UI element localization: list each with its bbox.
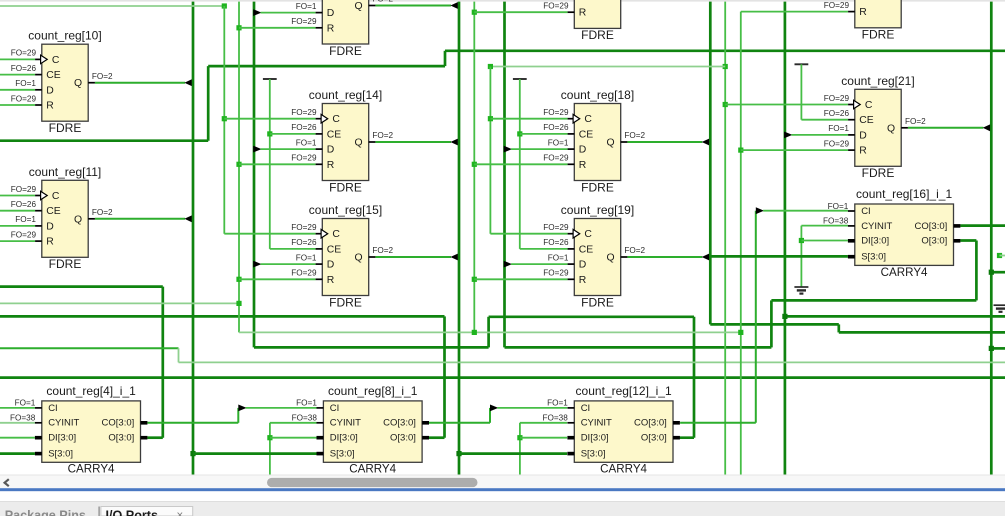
svg-text:C: C xyxy=(865,100,873,111)
junction CYINIT net to DI of count_reg[16]_i_1 xyxy=(799,238,804,243)
svg-text:FDRE: FDRE xyxy=(49,121,82,135)
svg-text:Q: Q xyxy=(74,78,82,89)
wire net O[3:0] of count_reg[12]_i_1 vertical trunk V6 xyxy=(253,2,256,348)
svg-text:FO=29: FO=29 xyxy=(543,269,569,278)
wire O[12] net vertical riser x=488 xyxy=(487,317,490,348)
junction reset to R of top flip-flop (x=574 column) xyxy=(472,10,477,15)
svg-text:FDRE: FDRE xyxy=(329,295,362,309)
svg-text:FO=1: FO=1 xyxy=(828,202,849,211)
flip-flop count_reg[13] (FDRE, cut at top edge) xyxy=(291,0,375,58)
svg-text:S[3:0]: S[3:0] xyxy=(581,449,606,460)
arrowhead D input branch for count_reg[18] xyxy=(504,146,512,153)
svg-text:CARRY4: CARRY4 xyxy=(881,266,928,279)
wire Q output of count_reg[14] xyxy=(375,141,451,143)
wire O[16] net vertical riser x=771 xyxy=(770,300,773,347)
arrowhead Q of count_reg[21] at trunk xyxy=(983,124,990,131)
junction clock branch at top of trunk V27 xyxy=(488,64,493,69)
node CE net stub terminator (T-bar) right xyxy=(795,63,809,65)
svg-text:FDRE: FDRE xyxy=(581,295,614,309)
svg-text:R: R xyxy=(327,275,335,286)
node CE net stub terminator (T-bar) middle xyxy=(513,78,527,80)
wire CO[3:0] of count_reg[12]_i_1 xyxy=(680,422,756,424)
svg-text:FO=1: FO=1 xyxy=(296,138,317,147)
wire CE to CE pin of count_reg[19] xyxy=(520,248,568,250)
svg-text:FO=26: FO=26 xyxy=(543,238,569,247)
svg-text:FO=1: FO=1 xyxy=(296,399,317,408)
svg-text:C: C xyxy=(584,114,592,125)
svg-text:R: R xyxy=(859,7,867,18)
arrowhead carry into CI of count_reg[12]_i_1 xyxy=(490,405,498,412)
arrowhead carry into CI of count_reg[8]_i_1 xyxy=(238,405,246,412)
svg-text:CARRY4: CARRY4 xyxy=(349,463,396,476)
junction CYINIT net to DI of count_reg[8]_i_1 xyxy=(267,435,272,440)
arrowhead Q of count_reg[18] at trunk xyxy=(702,139,709,146)
tab separator xyxy=(98,507,100,516)
wire branch from trunk V5 to right edge y=316 xyxy=(785,315,1005,318)
wire CE to CE pin of count_reg[18] xyxy=(520,133,568,135)
wire V3 net step down x=839 xyxy=(837,324,840,332)
wire CE to CE pin of count_reg[21] xyxy=(801,119,848,121)
svg-text:CE: CE xyxy=(46,206,61,217)
wire D input of count_reg[21] xyxy=(791,134,848,136)
wire net Q-bus trunk V1 (collects Q[10],Q[11], feeds S of count_reg[8]_i_1) xyxy=(192,2,195,475)
junction CYINIT net to DI of count_reg[12]_i_1 xyxy=(517,435,522,440)
wire branch from trunk V4 to right edge y=348 xyxy=(991,347,1005,350)
svg-text:FO=1: FO=1 xyxy=(296,253,317,262)
svg-text:CARRY4: CARRY4 xyxy=(600,463,647,476)
svg-text:CARRY4: CARRY4 xyxy=(68,463,115,476)
svg-text:D: D xyxy=(327,145,335,156)
wire Q output of count_reg[11] xyxy=(95,218,185,220)
flip-flop count_reg[11] (FDRE) xyxy=(11,165,102,271)
svg-text:count_reg[11]: count_reg[11] xyxy=(29,165,102,179)
wire stepped net vertical x=208 xyxy=(207,66,210,141)
svg-text:FO=2: FO=2 xyxy=(92,72,113,81)
wire O[16] net horizontal y=347 xyxy=(505,346,772,349)
svg-text:Q: Q xyxy=(355,1,363,12)
svg-text:S[3:0]: S[3:0] xyxy=(330,449,355,460)
wire S[3:0] input of count_reg[4]_i_1 from left edge xyxy=(0,452,35,455)
svg-text:count_reg[4]_i_1: count_reg[4]_i_1 xyxy=(46,384,136,398)
svg-text:FO=29: FO=29 xyxy=(291,154,317,163)
wire full-width dark net y=378 xyxy=(0,376,1005,379)
wire CYINIT input of count_reg[4]_i_1 from left edge xyxy=(0,422,35,424)
ground symbol partial at right edge xyxy=(994,305,1005,312)
wire clock pale branch y=66 xyxy=(490,66,725,68)
active tab background I/O Ports xyxy=(101,507,193,516)
svg-text:CE: CE xyxy=(327,129,342,140)
svg-text:CO[3:0]: CO[3:0] xyxy=(383,418,416,429)
wire reset to R pin of count_reg[14] xyxy=(239,163,316,165)
flip-flop count_reg[21] (FDRE) xyxy=(824,74,915,180)
svg-text:FO=2: FO=2 xyxy=(372,131,393,140)
svg-text:DI[3:0]: DI[3:0] xyxy=(330,433,358,444)
wire CE input of count_reg[11] from left edge xyxy=(0,210,35,212)
wire stepped net horizontal y=51 to right edge xyxy=(445,49,1005,52)
junction reset to R of count_reg[14] xyxy=(236,162,241,167)
wire pale net horizontal y=362 to right edge xyxy=(179,361,1005,363)
wire CO[12] riser V8 x=756 xyxy=(755,211,757,423)
wire stepped net vertical x=445 xyxy=(444,51,447,66)
blue splitter bar xyxy=(0,488,1005,491)
wire clock trunk V9 x=224 xyxy=(223,6,225,234)
wire O[4] net run to O[3:0] output xyxy=(147,436,162,439)
svg-text:FO=2: FO=2 xyxy=(372,246,393,255)
svg-text:FO=1: FO=1 xyxy=(15,79,36,88)
svg-text:CO[3:0]: CO[3:0] xyxy=(634,418,667,429)
wire CYINIT net vertical of count_reg[8]_i_1 xyxy=(269,423,271,475)
wire R input of count_reg[11] from left edge xyxy=(0,240,35,242)
wire DI[3:0] input of count_reg[4]_i_1 from left edge xyxy=(0,437,35,439)
arrowhead Q of count_reg[15] at trunk xyxy=(450,254,457,261)
wire net trunk V5 (O bus feeding D of count_reg[21]) xyxy=(784,2,787,475)
junction on trunk V5 at y=316 xyxy=(782,314,787,319)
svg-text:count_reg[8]_i_1: count_reg[8]_i_1 xyxy=(328,384,418,398)
svg-text:O[3:0]: O[3:0] xyxy=(641,433,667,444)
svg-text:FO=29: FO=29 xyxy=(543,2,569,11)
wire CI input of count_reg[16]_i_1 xyxy=(763,210,848,212)
wire reset trunk V23 x=474 xyxy=(473,2,475,333)
wire CO[3:0] of count_reg[4]_i_1 xyxy=(147,422,238,424)
svg-text:CE: CE xyxy=(579,129,594,140)
svg-text:FO=38: FO=38 xyxy=(292,414,318,423)
svg-text:FO=29: FO=29 xyxy=(543,223,569,232)
wire DI[3:0] input of count_reg[8]_i_1 xyxy=(270,437,317,439)
wire R input of count_reg[10] from left edge xyxy=(0,104,35,106)
svg-text:FO=1: FO=1 xyxy=(548,138,569,147)
wire O[16] net run to O[3:0] output xyxy=(960,239,976,242)
flip-flop count_reg[17] (FDRE, cut at top edge) xyxy=(543,0,620,42)
junction reset to R of count_reg[21] xyxy=(738,148,743,153)
wire O[8] net vertical x=444 xyxy=(443,316,446,437)
svg-text:FO=26: FO=26 xyxy=(824,109,850,118)
svg-text:FO=29: FO=29 xyxy=(11,185,37,194)
junction reset to R of top flip-flop xyxy=(236,25,241,30)
wire branch from trunk V4 to right edge y=272 xyxy=(991,271,1005,274)
svg-text:D: D xyxy=(327,8,335,19)
svg-text:FDRE: FDRE xyxy=(581,180,614,194)
wire net O[3:0] of count_reg[4]_i_1 horizontal y=287 to left edge xyxy=(0,285,163,288)
svg-text:CYINIT: CYINIT xyxy=(330,418,361,429)
wire stepped net horizontal y=66 xyxy=(208,65,445,68)
wire O[12] net horizontal y=347 xyxy=(254,346,489,349)
svg-text:CI: CI xyxy=(581,403,591,414)
scrollbar left arrow chevron xyxy=(5,479,9,486)
flip-flop count_reg[19] (FDRE) xyxy=(543,203,634,309)
wire net Q-bus trunk V2 (collects Q[14],Q[15], feeds S of count_reg[12]_i_1) xyxy=(458,2,461,475)
svg-text:CE: CE xyxy=(46,70,61,81)
svg-text:FO=2: FO=2 xyxy=(905,117,926,126)
wire CYINIT net vertical of count_reg[12]_i_1 xyxy=(519,423,521,475)
svg-text:DI[3:0]: DI[3:0] xyxy=(581,433,609,444)
wire net Q-bus trunk V4 (collects Q[21]) xyxy=(990,2,993,475)
svg-text:C: C xyxy=(52,55,60,66)
wire reset to R pin of count_reg[21] xyxy=(741,149,848,151)
wire reset to R pin of top flip-flop (x=574 column) xyxy=(474,11,567,13)
wire CYINIT net vertical of count_reg[16]_i_1 xyxy=(800,226,802,287)
flip-flop count_reg[14] (FDRE) xyxy=(291,88,382,194)
wire reset to R pin of top flip-flop (x=855 column) xyxy=(741,11,848,13)
junction clock to C of count_reg[18] xyxy=(488,116,493,121)
wire CE to CE pin of count_reg[15] xyxy=(270,248,316,250)
arrowhead Q of count_reg[19] at trunk xyxy=(702,254,709,261)
junction clock to C of count_reg[14] xyxy=(222,116,227,121)
svg-text:Q: Q xyxy=(607,253,615,264)
svg-text:C: C xyxy=(584,229,592,240)
junction reset trunk V11 on pale bus xyxy=(738,330,743,335)
wire S[3:0] input of count_reg[16]_i_1 xyxy=(710,255,848,258)
svg-text:C: C xyxy=(332,229,340,240)
svg-text:C: C xyxy=(52,191,60,202)
svg-text:count_reg[18]: count_reg[18] xyxy=(561,88,634,102)
svg-text:count_reg[19]: count_reg[19] xyxy=(561,203,634,217)
wire D input of count_reg[19] xyxy=(511,263,568,265)
flip-flop count_reg[10] (FDRE) xyxy=(11,29,102,135)
arrowhead carry into CI of count_reg[16]_i_1 xyxy=(756,207,764,214)
wire net Q-bus trunk V3 (collects Q[18],Q[19], feeds S of count_reg[16]_i_1) xyxy=(709,2,712,325)
wire O[16] net vertical riser x=976 xyxy=(975,241,978,301)
svg-text:DI[3:0]: DI[3:0] xyxy=(861,236,889,247)
wire D input of count_reg[14] xyxy=(261,148,316,150)
wire D input of count_reg[18] xyxy=(511,148,568,150)
wire CI input of count_reg[4]_i_1 from left edge xyxy=(0,407,35,409)
svg-text:FO=29: FO=29 xyxy=(291,269,317,278)
svg-text:FO=38: FO=38 xyxy=(10,414,36,423)
wire reset pale bus y=332 xyxy=(239,331,741,333)
junction CE to count_reg[14] xyxy=(267,131,272,136)
ground symbol below count_reg[16]_i_1 CYINIT net xyxy=(794,287,808,294)
svg-text:S[3:0]: S[3:0] xyxy=(861,252,886,263)
svg-text:CI: CI xyxy=(48,403,58,414)
svg-text:D: D xyxy=(859,130,867,141)
wire Q output of count_reg[21] xyxy=(908,127,983,129)
junction trunk V1 to S of count_reg[8]_i_1 xyxy=(190,451,195,456)
wire Q output of count_reg[15] xyxy=(375,256,451,258)
svg-text:D: D xyxy=(46,221,54,232)
svg-text:count_reg[16]_i_1: count_reg[16]_i_1 xyxy=(856,187,952,201)
svg-text:FO=2: FO=2 xyxy=(372,0,393,4)
svg-text:I/O Ports: I/O Ports xyxy=(106,509,158,516)
wire reset to R pin of top flip-flop (x=322 column) xyxy=(239,27,316,29)
flip-flop count_reg[20] (FDRE, cut at top edge) xyxy=(824,0,901,42)
svg-text:FO=29: FO=29 xyxy=(11,94,37,103)
svg-text:FDRE: FDRE xyxy=(329,44,362,58)
svg-text:FO=1: FO=1 xyxy=(828,124,849,133)
svg-text:R: R xyxy=(859,146,867,157)
junction reset to R of count_reg[19] xyxy=(472,277,477,282)
svg-text:CE: CE xyxy=(859,115,874,126)
horizontal scrollbar track xyxy=(0,475,1005,476)
svg-text:CE: CE xyxy=(327,244,342,255)
junction clock trunk V12 to pale branch y=66 xyxy=(723,64,728,69)
arrowhead D input branch for top flip-flop x=322 xyxy=(253,9,261,16)
carry-chain count_reg[16]_i_1 (CARRY4) xyxy=(823,187,960,279)
junction on trunk V4 at y=348 xyxy=(989,346,994,351)
svg-text:R: R xyxy=(579,8,587,19)
svg-text:count_reg[15]: count_reg[15] xyxy=(309,203,382,217)
svg-text:FO=1: FO=1 xyxy=(15,215,36,224)
svg-text:count_reg[10]: count_reg[10] xyxy=(28,29,101,43)
svg-text:FO=2: FO=2 xyxy=(624,246,645,255)
svg-text:R: R xyxy=(579,160,587,171)
svg-text:R: R xyxy=(579,275,587,286)
wire reset pale branch to left edge y=303 xyxy=(0,302,239,304)
svg-text:FDRE: FDRE xyxy=(329,180,362,194)
wire CO[3:0] of count_reg[16]_i_1 to right edge xyxy=(960,224,1005,227)
wire stepped net horizontal y=141 to left edge xyxy=(0,139,208,142)
wire reset to R pin of count_reg[18] xyxy=(474,163,567,165)
svg-text:FO=38: FO=38 xyxy=(823,217,849,226)
wire CO[4] riser x=238 xyxy=(237,408,239,423)
svg-text:Q: Q xyxy=(607,138,615,149)
wire C input of count_reg[11] from left edge xyxy=(0,195,35,197)
flip-flop count_reg[15] (FDRE) xyxy=(291,203,382,309)
wire clock to C pin of count_reg[14] xyxy=(224,118,315,120)
wire CO[3:0] of count_reg[8]_i_1 xyxy=(429,422,490,424)
wire CYINIT input of count_reg[16]_i_1 xyxy=(801,225,848,227)
svg-text:R: R xyxy=(46,101,54,112)
svg-text:O[3:0]: O[3:0] xyxy=(390,433,416,444)
panel white strip xyxy=(0,491,1005,501)
arrowhead D input branch for count_reg[19] xyxy=(504,261,512,268)
svg-text:CYINIT: CYINIT xyxy=(861,221,892,232)
wire D input of count_reg[10] from left edge xyxy=(0,89,35,91)
carry-chain count_reg[8]_i_1 (CARRY4) xyxy=(292,384,429,476)
svg-text:FDRE: FDRE xyxy=(862,166,895,180)
junction reset trunk V23 on pale bus xyxy=(472,330,477,335)
svg-text:FO=26: FO=26 xyxy=(291,123,317,132)
wire O[12] net horizontal y=317 xyxy=(489,315,694,318)
svg-text:R: R xyxy=(327,160,335,171)
junction on trunk V4 at y=272 xyxy=(989,270,994,275)
wire O[4] net vertical x=163 xyxy=(161,287,164,438)
wire CE input of count_reg[10] from left edge xyxy=(0,74,35,76)
arrowhead Q of count_reg[14] at trunk xyxy=(450,139,457,146)
svg-text:FO=2: FO=2 xyxy=(92,208,113,217)
svg-text:D: D xyxy=(579,260,587,271)
svg-text:count_reg[12]_i_1: count_reg[12]_i_1 xyxy=(576,384,672,398)
svg-text:FO=29: FO=29 xyxy=(824,139,850,148)
svg-text:Q: Q xyxy=(74,214,82,225)
junction clock trunk V12 to C of count_reg[21] xyxy=(723,102,728,107)
svg-text:FO=29: FO=29 xyxy=(291,223,317,232)
wire clock trunk V27 x=490 xyxy=(489,67,491,234)
svg-text:×: × xyxy=(177,510,184,516)
junction reset to R of count_reg[15] xyxy=(236,277,241,282)
wire O[12] net stub run to O[3:0] output xyxy=(673,436,694,439)
wire D input of top flip-flop x=322 xyxy=(261,12,316,14)
svg-text:FO=26: FO=26 xyxy=(291,238,317,247)
svg-text:CYINIT: CYINIT xyxy=(48,418,79,429)
wire CE trunk V14 x=520 xyxy=(519,79,521,249)
svg-text:count_reg[21]: count_reg[21] xyxy=(841,74,914,88)
arrowhead D input branch for count_reg[14] xyxy=(253,146,261,153)
svg-text:FO=2: FO=2 xyxy=(624,131,645,140)
wire CYINIT input of count_reg[8]_i_1 xyxy=(270,422,317,424)
svg-text:FDRE: FDRE xyxy=(862,28,895,42)
wire O[12] net vertical x=694 down to O pin xyxy=(693,317,696,438)
wire D input of count_reg[11] from left edge xyxy=(0,225,35,227)
wire clock to C pin of count_reg[15] xyxy=(224,233,315,235)
arrowhead Q of count_reg[11] at trunk xyxy=(184,215,191,222)
wire reset trunk V10 x=239 xyxy=(238,2,240,333)
scrollbar thumb xyxy=(267,478,478,487)
svg-text:Q: Q xyxy=(355,253,363,264)
arrowhead D input branch for count_reg[21] xyxy=(784,132,792,139)
wire DI[3:0] input of count_reg[16]_i_1 xyxy=(801,240,848,242)
svg-text:FO=29: FO=29 xyxy=(543,154,569,163)
svg-text:FO=26: FO=26 xyxy=(11,64,37,73)
svg-text:FO=38: FO=38 xyxy=(543,414,569,423)
carry-chain count_reg[12]_i_1 (CARRY4) xyxy=(543,384,680,476)
svg-text:FDRE: FDRE xyxy=(581,28,614,42)
wire DI[3:0] input of count_reg[12]_i_1 xyxy=(520,437,567,439)
svg-text:O[3:0]: O[3:0] xyxy=(921,236,947,247)
wire Q output of count_reg[10] xyxy=(95,82,185,84)
svg-text:FO=29: FO=29 xyxy=(543,108,569,117)
wire Q output of count_reg[18] xyxy=(627,141,702,143)
svg-text:Q: Q xyxy=(355,138,363,149)
wire reset trunk V11 x=741 xyxy=(740,12,742,475)
svg-text:CYINIT: CYINIT xyxy=(581,418,612,429)
svg-text:FO=29: FO=29 xyxy=(11,49,37,58)
svg-text:Q: Q xyxy=(887,123,895,134)
svg-text:FO=26: FO=26 xyxy=(543,123,569,132)
arrowhead Q of count_reg[10] at trunk xyxy=(184,79,191,86)
svg-text:S[3:0]: S[3:0] xyxy=(48,449,73,460)
svg-text:FO=29: FO=29 xyxy=(824,1,850,10)
svg-text:R: R xyxy=(327,23,335,34)
wire clock to C pin of count_reg[21] xyxy=(725,104,848,106)
bottom tab bar background xyxy=(0,502,1005,516)
wire CI input of count_reg[12]_i_1 xyxy=(497,407,567,409)
wire V3 net horizontal y=324 xyxy=(710,323,839,326)
wire CYINIT input of count_reg[12]_i_1 xyxy=(520,422,567,424)
node CE net stub terminator (T-bar) left xyxy=(263,78,277,80)
svg-text:FO=29: FO=29 xyxy=(824,94,850,103)
svg-text:Package Pins: Package Pins xyxy=(5,509,86,516)
wire Q output of count_reg[19] xyxy=(627,256,702,258)
wire clock trunk V12 x=725 xyxy=(724,2,726,475)
junction reset trunk V10 with pale branch xyxy=(236,301,241,306)
svg-text:CO[3:0]: CO[3:0] xyxy=(102,418,135,429)
arrowhead D input branch for count_reg[15] xyxy=(253,261,261,268)
wire V3 net horizontal y=332 to right edge xyxy=(839,331,1005,334)
arrowhead Q of top flip-flop x=322 at trunk xyxy=(450,2,457,9)
svg-text:D: D xyxy=(327,260,335,271)
wire S[3:0] input of count_reg[12]_i_1 xyxy=(459,452,567,455)
wire net O[3:0] of count_reg[8]_i_1 horizontal y=316 to left edge xyxy=(0,315,445,318)
svg-text:DI[3:0]: DI[3:0] xyxy=(48,433,76,444)
svg-text:CI: CI xyxy=(861,206,871,217)
svg-text:FO=29: FO=29 xyxy=(11,230,37,239)
carry-chain count_reg[4]_i_1 (CARRY4) xyxy=(10,384,147,476)
junction small net stub at right edge xyxy=(997,253,1002,258)
svg-text:FO=26: FO=26 xyxy=(11,200,37,209)
wire CE to CE pin of count_reg[14] xyxy=(270,133,316,135)
wire reset to R pin of count_reg[19] xyxy=(474,278,567,280)
wire clock net from left edge y=6 xyxy=(0,5,224,7)
wire S[3:0] input of count_reg[8]_i_1 xyxy=(193,452,317,455)
svg-text:D: D xyxy=(579,145,587,156)
svg-text:count_reg[14]: count_reg[14] xyxy=(309,88,382,102)
junction reset to R of count_reg[18] xyxy=(472,162,477,167)
svg-text:D: D xyxy=(46,85,54,96)
wire CE trunk V15a x=801 xyxy=(800,64,802,119)
wire net O[3:0] of count_reg[16]_i_1 vertical trunk V7 xyxy=(503,2,506,348)
wire clock to C pin of count_reg[18] xyxy=(490,118,567,120)
svg-text:O[3:0]: O[3:0] xyxy=(108,433,134,444)
